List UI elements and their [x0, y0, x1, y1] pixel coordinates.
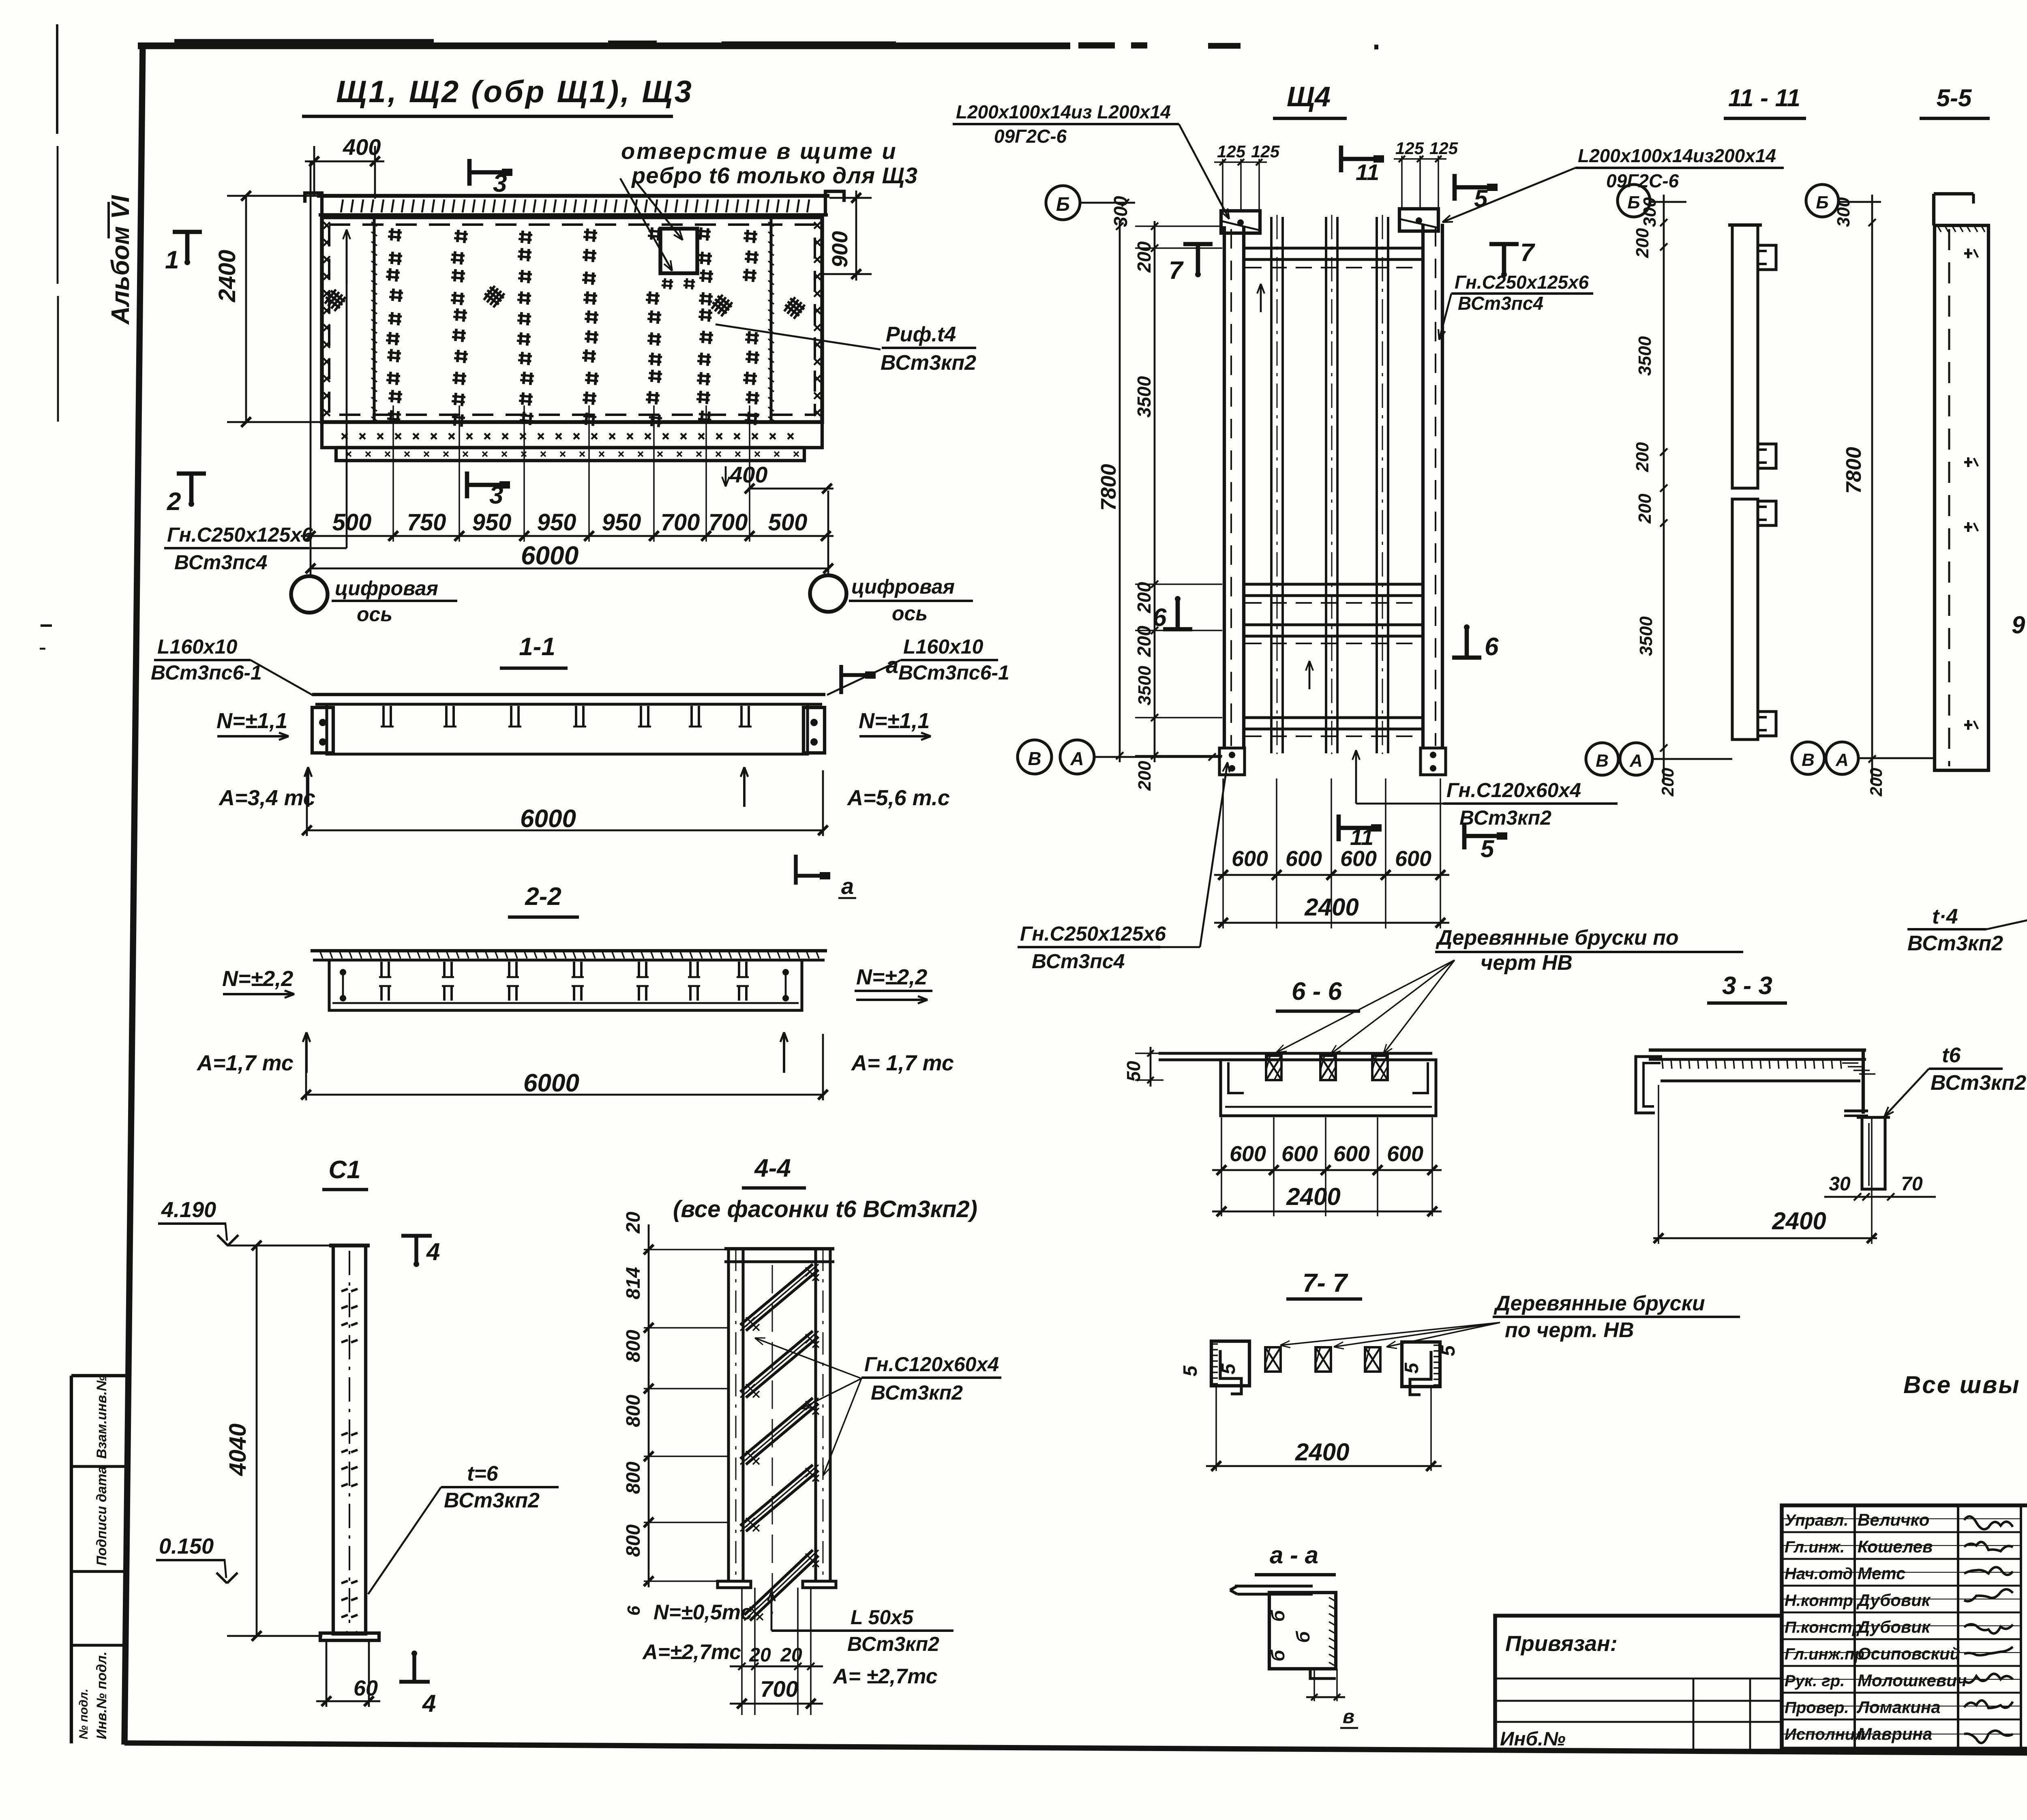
svg-text:Гн.С250х125х6: Гн.С250х125х6 — [1020, 922, 1166, 945]
svg-text:Нач.отд: Нач.отд — [1785, 1565, 1853, 1583]
svg-text:7: 7 — [1169, 257, 1184, 285]
svg-text:Б: Б — [1627, 193, 1640, 212]
svg-text:6000: 6000 — [520, 805, 576, 833]
svg-text:Дубовик: Дубовик — [1856, 1617, 1931, 1636]
svg-text:t·4: t·4 — [1932, 905, 1958, 928]
svg-text:ребро t6 только для Щ3: ребро t6 только для Щ3 — [631, 163, 918, 188]
svg-text:Гн.С250х125х6: Гн.С250х125х6 — [1455, 272, 1589, 293]
svg-text:3: 3 — [489, 481, 503, 509]
svg-text:600: 600 — [1333, 1142, 1370, 1166]
svg-text:цифровая: цифровая — [335, 577, 438, 600]
svg-text:300: 300 — [1640, 197, 1660, 227]
svg-text:черт НВ: черт НВ — [1481, 951, 1573, 975]
svg-text:Взам.инв.№: Взам.инв.№ — [94, 1375, 109, 1459]
svg-text:2400: 2400 — [1295, 1438, 1349, 1466]
svg-text:N=±1,1: N=±1,1 — [216, 709, 287, 733]
svg-text:11: 11 — [1356, 159, 1379, 185]
svg-text:125: 125 — [1251, 142, 1280, 161]
svg-text:4.190: 4.190 — [161, 1198, 216, 1222]
svg-text:2-2: 2-2 — [525, 883, 561, 911]
svg-text:L160х10: L160х10 — [157, 635, 238, 658]
svg-text:6: 6 — [1153, 604, 1167, 632]
svg-text:отверстие в щите и: отверстие в щите и — [621, 138, 898, 164]
svg-text:200: 200 — [1635, 493, 1655, 524]
svg-text:5: 5 — [1481, 835, 1495, 862]
svg-text:Альбом VI: Альбом VI — [107, 195, 135, 325]
svg-text:в: в — [1343, 1706, 1354, 1728]
svg-text:60: 60 — [354, 1676, 378, 1700]
svg-text:125: 125 — [1395, 139, 1424, 158]
svg-text:ВСт3кп2: ВСт3кп2 — [1459, 806, 1551, 829]
svg-text:2400: 2400 — [1772, 1207, 1826, 1235]
svg-text:Провер.: Провер. — [1785, 1699, 1849, 1717]
svg-text:В: В — [1596, 751, 1609, 771]
svg-text:9: 9 — [2012, 611, 2025, 639]
svg-text:300: 300 — [1834, 197, 1853, 227]
svg-text:20: 20 — [749, 1644, 771, 1666]
svg-text:А=5,6 т.с: А=5,6 т.с — [846, 786, 950, 810]
svg-text:Гн.С250х125х6: Гн.С250х125х6 — [167, 523, 313, 546]
svg-text:Гн.С120х60х4: Гн.С120х60х4 — [1446, 779, 1581, 802]
svg-text:А=3,4 тс: А=3,4 тс — [218, 786, 315, 810]
svg-text:3500: 3500 — [1635, 336, 1655, 376]
svg-text:5-5: 5-5 — [1937, 84, 1972, 111]
svg-text:Н.контр: Н.контр — [1785, 1592, 1853, 1610]
svg-text:200: 200 — [1658, 768, 1677, 797]
svg-text:N=±1,1: N=±1,1 — [859, 709, 930, 733]
svg-text:400: 400 — [729, 462, 767, 487]
svg-text:Осиповский: Осиповский — [1858, 1644, 1960, 1663]
svg-text:600: 600 — [1387, 1142, 1423, 1166]
svg-text:700: 700 — [760, 1676, 798, 1702]
svg-text:200: 200 — [1135, 761, 1155, 791]
svg-text:6 - 6: 6 - 6 — [1292, 978, 1342, 1005]
svg-text:1: 1 — [165, 246, 179, 274]
svg-text:3 - 3: 3 - 3 — [1722, 972, 1772, 1000]
svg-text:200: 200 — [1133, 241, 1155, 273]
svg-text:5: 5 — [1401, 1362, 1423, 1374]
svg-text:3500: 3500 — [1636, 616, 1656, 656]
svg-text:ВСт3кп2: ВСт3кп2 — [1907, 932, 2003, 955]
svg-text:б: б — [1292, 1631, 1313, 1643]
svg-text:200: 200 — [1133, 582, 1155, 613]
svg-text:900: 900 — [828, 231, 852, 268]
svg-text:N=±2,2: N=±2,2 — [856, 965, 927, 989]
svg-text:800: 800 — [623, 1462, 644, 1494]
svg-text:Б: Б — [1056, 194, 1070, 215]
svg-text:б: б — [1267, 1649, 1288, 1661]
svg-text:6000: 6000 — [521, 541, 579, 570]
svg-text:Подписи дата: Подписи дата — [94, 1466, 109, 1566]
svg-text:по черт. НВ: по черт. НВ — [1505, 1318, 1634, 1342]
svg-text:50: 50 — [1123, 1061, 1144, 1082]
svg-text:600: 600 — [1230, 1142, 1266, 1166]
svg-text:Все швы Кf 4 мм, кроме огово: Все швы Кf 4 мм, кроме оговоренных. — [1903, 1371, 2027, 1398]
svg-text:А: А — [1835, 750, 1849, 770]
svg-text:7: 7 — [1520, 239, 1535, 267]
svg-text:Деревянные бруски по: Деревянные бруски по — [1436, 926, 1679, 950]
svg-text:В: В — [1802, 750, 1815, 770]
svg-text:600: 600 — [1232, 847, 1268, 871]
svg-text:А=±2,7тс: А=±2,7тс — [642, 1640, 741, 1664]
svg-text:L200х100х14из200х14: L200х100х14из200х14 — [1578, 145, 1776, 166]
svg-text:750: 750 — [407, 509, 446, 536]
svg-text:Гл.инж.: Гл.инж. — [1785, 1538, 1845, 1556]
svg-text:4040: 4040 — [225, 1423, 251, 1476]
svg-text:600: 600 — [1395, 847, 1431, 871]
svg-text:А: А — [1070, 748, 1084, 769]
svg-text:ВСт3кп2: ВСт3кп2 — [847, 1633, 939, 1655]
svg-text:2400: 2400 — [1304, 894, 1358, 921]
svg-text:6: 6 — [624, 1606, 644, 1616]
svg-text:Метс: Метс — [1858, 1564, 1906, 1583]
svg-text:t6: t6 — [1942, 1044, 1961, 1067]
svg-text:Инв.№ подл.: Инв.№ подл. — [94, 1651, 109, 1739]
svg-text:11 - 11: 11 - 11 — [1728, 84, 1800, 111]
svg-text:ось: ось — [892, 602, 928, 625]
svg-text:11: 11 — [1350, 824, 1373, 850]
svg-text:5: 5 — [1218, 1363, 1239, 1374]
svg-text:7800: 7800 — [1842, 447, 1866, 494]
svg-text:800: 800 — [623, 1330, 644, 1362]
svg-text:3500: 3500 — [1133, 376, 1155, 418]
svg-text:(все фасонки t6 ВСт3кп2): (все фасонки t6 ВСт3кп2) — [673, 1196, 977, 1222]
svg-text:70: 70 — [1901, 1173, 1923, 1195]
svg-text:ВСт3пс4: ВСт3пс4 — [174, 551, 267, 574]
svg-text:1-1: 1-1 — [519, 633, 555, 661]
svg-text:5: 5 — [1438, 1345, 1459, 1356]
svg-text:0.150: 0.150 — [159, 1534, 214, 1558]
svg-text:С1: С1 — [328, 1156, 360, 1184]
svg-text:800: 800 — [623, 1524, 644, 1557]
svg-text:L 50х5: L 50х5 — [851, 1606, 914, 1629]
svg-text:Дубовик: Дубовик — [1856, 1591, 1931, 1610]
svg-text:125: 125 — [1429, 139, 1458, 158]
svg-text:А= ±2,7тс: А= ±2,7тс — [832, 1665, 938, 1688]
svg-text:500: 500 — [768, 509, 808, 536]
svg-text:600: 600 — [1340, 847, 1377, 871]
svg-text:09Г2С-6: 09Г2С-6 — [994, 126, 1067, 147]
svg-text:4: 4 — [422, 1690, 436, 1717]
svg-text:7800: 7800 — [1097, 464, 1121, 511]
svg-text:ВСт3кп2: ВСт3кп2 — [1931, 1071, 2026, 1095]
svg-text:ВСт3кп2: ВСт3кп2 — [871, 1381, 963, 1404]
svg-text:Молошкевич: Молошкевич — [1858, 1671, 1967, 1690]
svg-text:2400: 2400 — [214, 250, 240, 302]
svg-text:Щ4: Щ4 — [1287, 81, 1331, 112]
svg-text:б: б — [1267, 1610, 1288, 1622]
svg-text:А: А — [1629, 751, 1643, 771]
svg-text:А=1,7 тс: А=1,7 тс — [196, 1051, 294, 1075]
svg-text:700: 700 — [661, 509, 700, 536]
svg-text:2400: 2400 — [1286, 1183, 1340, 1210]
svg-text:5: 5 — [1474, 185, 1488, 212]
svg-text:Величко: Величко — [1858, 1510, 1929, 1529]
svg-text:А= 1,7 тс: А= 1,7 тс — [851, 1051, 954, 1075]
svg-text:950: 950 — [472, 509, 512, 536]
svg-text:2: 2 — [167, 488, 181, 516]
svg-text:ось: ось — [357, 603, 392, 626]
svg-text:N=±0,5тс: N=±0,5тс — [654, 1601, 752, 1624]
svg-text:а: а — [841, 873, 854, 899]
svg-text:Рук. гр.: Рук. гр. — [1785, 1672, 1845, 1690]
svg-text:3: 3 — [493, 169, 507, 197]
svg-text:В: В — [1028, 748, 1041, 769]
svg-text:125: 125 — [1217, 142, 1246, 161]
svg-text:ВСт3пс4: ВСт3пс4 — [1032, 950, 1125, 973]
svg-text:600: 600 — [1286, 847, 1322, 871]
svg-text:500: 500 — [332, 509, 372, 536]
svg-text:Гл.инж.пр: Гл.инж.пр — [1785, 1645, 1864, 1663]
svg-text:7- 7: 7- 7 — [1303, 1268, 1349, 1297]
svg-text:4-4: 4-4 — [754, 1154, 791, 1182]
svg-text:6000: 6000 — [523, 1069, 579, 1097]
svg-text:Деревянные бруски: Деревянные бруски — [1493, 1292, 1705, 1315]
svg-text:200: 200 — [1633, 442, 1652, 472]
svg-text:а - а: а - а — [1270, 1541, 1318, 1569]
svg-text:Кошелев: Кошелев — [1858, 1537, 1933, 1556]
svg-text:Гн.С120х60х4: Гн.С120х60х4 — [864, 1353, 999, 1376]
svg-text:800: 800 — [623, 1395, 644, 1427]
svg-text:Ломакина: Ломакина — [1856, 1698, 1941, 1717]
svg-text:950: 950 — [537, 509, 576, 536]
svg-text:ВСт3пс4: ВСт3пс4 — [1458, 293, 1543, 314]
svg-text:ВСт3кп2: ВСт3кп2 — [881, 351, 976, 375]
svg-text:цифровая: цифровая — [851, 575, 955, 598]
svg-text:L160х10: L160х10 — [903, 635, 984, 658]
svg-text:Б: Б — [1816, 193, 1828, 212]
svg-text:200: 200 — [1133, 626, 1155, 657]
svg-text:20: 20 — [780, 1644, 802, 1666]
svg-text:600: 600 — [1281, 1142, 1318, 1166]
svg-text:Инб.№: Инб.№ — [1500, 1728, 1566, 1750]
svg-text:Щ1, Щ2 (обр Щ1), Щ3: Щ1, Щ2 (обр Щ1), Щ3 — [336, 75, 694, 109]
svg-text:ВСт3кп2: ВСт3кп2 — [444, 1489, 540, 1512]
svg-text:t=6: t=6 — [467, 1462, 499, 1486]
svg-text:Управл.: Управл. — [1785, 1511, 1848, 1529]
svg-text:700: 700 — [709, 509, 748, 536]
svg-text:200: 200 — [1633, 228, 1652, 258]
svg-text:№ подл.: № подл. — [77, 1689, 90, 1739]
svg-text:Риф.t4: Риф.t4 — [886, 323, 956, 346]
svg-text:П.констр: П.констр — [1785, 1618, 1862, 1636]
svg-text:20: 20 — [623, 1211, 644, 1234]
svg-text:ВСт3пс6-1: ВСт3пс6-1 — [151, 661, 262, 684]
svg-text:950: 950 — [602, 509, 641, 536]
svg-text:6: 6 — [1485, 633, 1499, 661]
svg-text:L200х100х14из L200х14: L200х100х14из L200х14 — [956, 101, 1171, 122]
svg-text:Привязан:: Привязан: — [1505, 1631, 1618, 1656]
svg-text:N=±2,2: N=±2,2 — [222, 967, 293, 991]
svg-text:30: 30 — [1829, 1173, 1851, 1195]
svg-text:200: 200 — [1866, 768, 1886, 797]
svg-text:4: 4 — [426, 1238, 440, 1265]
svg-text:5: 5 — [1180, 1365, 1201, 1376]
svg-text:3500: 3500 — [1135, 666, 1155, 705]
svg-text:ВСт3пс6-1: ВСт3пс6-1 — [898, 661, 1009, 684]
svg-text:814: 814 — [623, 1267, 644, 1299]
